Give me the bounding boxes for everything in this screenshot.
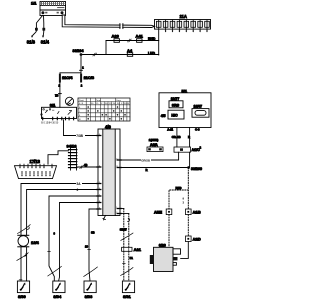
unit 4/5 HIC <box>161 110 184 119</box>
data link connector 17/13 <box>15 159 57 179</box>
fuse box 11A <box>155 14 211 29</box>
SRS unit 19/77 <box>169 97 183 108</box>
break mark <box>17 253 28 261</box>
svg-text:4B: 4B <box>84 163 87 167</box>
17/13 bottom row pins <box>21 171 51 176</box>
svg-text:31/4: 31/4 <box>41 39 50 44</box>
blower motor 6/28 <box>150 244 181 272</box>
fuse A41 <box>136 34 144 43</box>
wire A3/D to 6/28 <box>181 242 189 259</box>
5/1 pin A-11 <box>167 128 180 148</box>
wire node to A1/B (dashed) <box>182 168 188 210</box>
heated element 8/30 <box>17 280 29 299</box>
svg-text:Conn: Conn <box>116 100 122 102</box>
svg-text:A23: A23 <box>112 34 120 39</box>
svg-text:Posit: Posit <box>79 99 84 102</box>
wire 13/4 to 8/30 <box>21 247 27 281</box>
svg-text:LHD: LHD <box>148 52 156 56</box>
svg-text:A-11: A-11 <box>167 128 173 132</box>
svg-text:8: 8 <box>99 201 100 203</box>
svg-text:11A: 11A <box>180 14 187 19</box>
wire 4/9 to lighter 13/4 (feed) <box>21 181 98 235</box>
svg-text:34/19: 34/19 <box>67 143 78 148</box>
svg-text:SB/W: SB/W <box>120 228 127 232</box>
wire 4/9 to lighter 13/4 (second) <box>27 188 98 235</box>
svg-text:33/204: 33/204 <box>73 49 84 53</box>
break mark <box>84 267 98 277</box>
wire tick <box>48 251 51 253</box>
cable break mark <box>120 24 123 29</box>
wire A23 branch down <box>105 41 107 55</box>
5/1 pin C-8 <box>188 128 200 148</box>
svg-text:0 I II: 0 I II <box>79 103 83 105</box>
svg-text:A21: A21 <box>134 247 142 252</box>
wire battery positive thick cable to fuse box <box>62 15 154 28</box>
cigarette lighter 13/4 <box>18 235 40 247</box>
svg-text:7: 7 <box>99 194 100 196</box>
wire A1/B to A3/D (dashed) <box>187 215 189 236</box>
wires A21 to 8/31 <box>123 251 133 281</box>
fuse A23 <box>112 34 120 43</box>
wire 4/9 to 8/34 (first) <box>49 196 98 281</box>
svg-text:17/13: 17/13 <box>30 159 41 164</box>
wire 4/9 to 8/33 <box>89 209 98 281</box>
svg-text:RHD: RHD <box>148 37 156 41</box>
svg-text:A9/A: A9/A <box>150 143 158 147</box>
svg-text:33/209: 33/209 <box>191 167 202 171</box>
break mark <box>48 266 62 276</box>
break mark <box>121 268 133 276</box>
svg-text:16/67: 16/67 <box>194 105 203 109</box>
svg-text:8/30: 8/30 <box>18 294 27 299</box>
svg-text:11C/3: 11C/3 <box>84 75 95 80</box>
svg-text:Term: Term <box>96 99 101 102</box>
svg-text:7/3B: 7/3B <box>76 134 83 138</box>
switch position table <box>78 98 130 121</box>
svg-text:1(RHD): 1(RHD) <box>149 138 159 142</box>
wire RHD row <box>106 40 159 42</box>
wire ignition switch to 4/9 <box>64 120 99 138</box>
wire 4/9 to node 33/209 <box>121 168 188 172</box>
svg-text:A5/E: A5/E <box>154 211 163 215</box>
svg-text:GR/SB: GR/SB <box>141 158 150 162</box>
wire RHD branch (dashed) <box>169 186 188 209</box>
harness break mark <box>18 225 31 234</box>
connector A5/E <box>154 209 172 215</box>
svg-text:R: R <box>146 168 148 172</box>
svg-text:8/33: 8/33 <box>85 294 94 299</box>
svg-text:9: 9 <box>99 134 100 136</box>
connector strip 34/19 <box>67 143 78 170</box>
ignition switch pins <box>43 117 74 120</box>
svg-text:A1/B: A1/B <box>193 211 202 215</box>
connector A9/A (RHD) <box>147 138 163 151</box>
svg-text:B 0 15/84 30 50: B 0 15/84 30 50 <box>41 121 59 124</box>
svg-text:SRS: SRS <box>172 103 180 107</box>
fuse box output pins with arrows <box>165 29 208 32</box>
heated element 8/31 <box>122 281 134 299</box>
svg-text:8/31: 8/31 <box>123 294 132 299</box>
svg-text:A41: A41 <box>136 34 144 39</box>
wire junction down to 11C connectors <box>60 55 84 73</box>
wire 4/9 to A21 (dashed pair) <box>121 209 128 248</box>
4/9 right pins <box>117 160 121 214</box>
connector A21 <box>122 247 142 252</box>
svg-text:4/5: 4/5 <box>161 114 166 118</box>
4/9 left pins <box>97 136 101 210</box>
wire A5/E to 6/28 (dashed) <box>168 215 170 248</box>
battery 1/1 <box>31 1 66 16</box>
svg-text:6A: 6A <box>130 256 133 260</box>
fuse A4 <box>127 48 133 56</box>
svg-text:3: 3 <box>99 207 100 209</box>
svg-text:13/4: 13/4 <box>31 240 40 245</box>
svg-text:4: 4 <box>99 165 100 167</box>
ground lead arrow 31/3 <box>27 31 37 45</box>
svg-text:1/1: 1/1 <box>31 1 37 6</box>
17/13 top row pins <box>19 164 53 168</box>
svg-text:6: 6 <box>99 188 100 190</box>
splice tick <box>128 39 132 42</box>
connector 11C/3 <box>80 74 95 88</box>
wire battery negative leads <box>36 16 43 28</box>
relay 16/67 <box>192 105 209 118</box>
connector A1/C <box>174 146 202 153</box>
heated element 8/33 <box>84 281 96 299</box>
ignition switch pin labels <box>41 121 59 124</box>
svg-text:C-8: C-8 <box>195 128 200 132</box>
connector on lead to 31/4 <box>42 28 45 31</box>
control unit 4/9 <box>98 124 120 215</box>
svg-text:5A: 5A <box>77 182 82 186</box>
break mark <box>121 233 133 241</box>
connector on lead to 31/3 <box>35 28 38 31</box>
central electronic module 5/1 <box>159 88 211 127</box>
fuse elements inside 11A <box>156 20 209 28</box>
4/9 bottom pin arrow <box>103 216 106 221</box>
hook mark <box>128 219 130 222</box>
svg-text:3/1: 3/1 <box>50 103 56 108</box>
wire 34/19 to 4/9 <box>77 163 99 169</box>
svg-text:A3/D: A3/D <box>193 238 202 242</box>
ground lead arrow 31/4 <box>41 31 50 45</box>
wire 11C/4 down to ignition switch <box>55 83 61 108</box>
svg-text:HIC: HIC <box>171 114 178 118</box>
connector 11C/4 <box>59 74 74 88</box>
svg-text:6: 6 <box>77 188 79 192</box>
node 33/209 <box>187 166 202 171</box>
svg-text:SB: SB <box>91 230 95 234</box>
connector A1/B <box>186 209 202 215</box>
svg-text:31/3: 31/3 <box>27 39 36 44</box>
svg-text:OR-SB: OR-SB <box>172 135 181 139</box>
wire LHD row <box>81 54 159 56</box>
svg-text:8/34: 8/34 <box>53 294 62 299</box>
svg-text:R: R <box>188 135 190 139</box>
ignition key symbol <box>65 97 73 105</box>
svg-text:11C/4: 11C/4 <box>62 75 73 80</box>
wire 4/9 to 8/34 (second) <box>59 203 98 282</box>
wire 4/9 to A1/C (GR/SB) <box>121 152 178 162</box>
svg-text:RHD: RHD <box>176 186 182 190</box>
wire A1/C down <box>189 152 191 167</box>
svg-text:5: 5 <box>99 182 100 184</box>
node 33/204 <box>73 49 84 56</box>
wire from fuse A down to RHD/LHD rows <box>158 29 160 55</box>
heated element 8/34 <box>53 281 65 299</box>
wire 17/13 to 34/19 <box>48 151 69 164</box>
splice tick <box>93 53 97 56</box>
ignition switch 3/1 <box>41 103 77 119</box>
connector A3/D <box>186 236 202 242</box>
